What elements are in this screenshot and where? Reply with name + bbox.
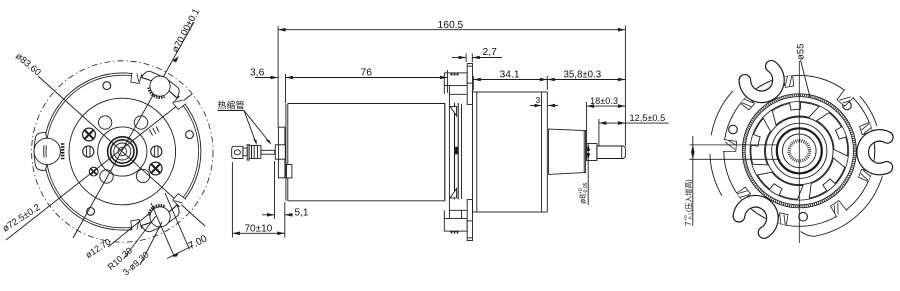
left view outer body inner circle [46,75,199,228]
dimension 160.5 [278,20,625,146]
dimension 2,7 [452,47,502,62]
plain hole upper-left [98,116,111,129]
hub circle [98,127,147,176]
can end crimp [444,104,446,200]
collar ø8 [587,144,597,161]
svg-text:18±0.3: 18±0.3 [590,96,618,106]
crimp triangle top [450,106,457,116]
spoke window 3 [769,94,820,136]
cross screw upper-left [83,128,96,141]
svg-text:ø8: ø8 [578,194,588,204]
svg-text:ø70.00±0.1: ø70.00±0.1 [170,7,202,55]
svg-text:5,1: 5,1 [295,208,309,219]
leader arrowhead on ø70 line [173,56,179,62]
left view phantom circle ø83.60 [32,61,213,242]
serrated ring [745,97,853,205]
wire grommet [287,165,292,178]
svg-text:7.00: 7.00 [187,233,210,252]
ear tab at +60 deg [127,191,192,241]
ring hole 87 deg [799,212,808,221]
rear step line [541,92,543,212]
svg-text:2,7: 2,7 [483,47,498,58]
cross screw lower-left small [89,167,98,176]
spoke window 5 [807,154,846,205]
dimension 18±0.3 [587,96,626,143]
dimension 34.1 [473,70,547,91]
spoke windows [739,90,860,211]
outer circle arcs through C cavities [873,145,876,159]
svg-text:12,5±0.5: 12,5±0.5 [630,113,666,123]
hub circle 3 [783,134,817,168]
small hole at 118 deg [87,208,95,216]
dimension 35,8±0.3 [547,70,625,82]
ring hole 162 deg [729,125,738,134]
svg-text:热缩管: 热缩管 [218,100,245,111]
svg-text:7: 7 [683,221,693,226]
rear cap tab bottom [444,200,472,241]
leader line A (ø83.60) [38,76,205,226]
ear tab at -60 deg [127,62,192,112]
crimp triangle bottom [450,188,457,198]
svg-text:34.1: 34.1 [500,70,520,81]
washer 1 [247,145,249,161]
svg-text:ø83.60: ø83.60 [13,51,43,78]
rear housing [473,92,548,212]
dimension 7 (press-in) [683,136,780,226]
III mark [150,126,160,135]
cone right face inner line [583,131,585,173]
svg-text:35,8±0.3: 35,8±0.3 [564,70,602,81]
hub outer circle [766,117,834,185]
plain hole upper-right [134,116,147,129]
slotted screw right [151,146,162,157]
crimp sleeve [252,146,261,159]
front shaft [261,150,275,154]
spoke window 2 [745,117,780,168]
bearing cone [549,129,586,174]
terminal neck [243,148,247,156]
svg-text:ø55: ø55 [796,44,807,60]
heat shrink sleeve [275,145,285,159]
small hole at -103 deg [103,82,111,90]
svg-text:70±10: 70±10 [245,224,273,235]
svg-text:ø72.5±0.2: ø72.5±0.2 [1,202,43,234]
small hole at -14 deg [186,131,194,139]
terminal hole [234,150,240,155]
dimension 3,6 [250,68,278,80]
bearing ring inner (dark) [111,140,134,163]
dimension 12,5±0.5 [599,113,669,146]
svg-text:3: 3 [536,95,541,105]
left view outer body circle [44,73,201,230]
ear tab at 180 deg (C-clamp) [34,133,63,171]
plain hole lower-right [136,169,149,182]
left view inner flange circle [69,98,176,205]
svg-text:160.5: 160.5 [438,20,464,31]
wing at 56 deg [830,200,847,217]
slotted screw left [83,146,94,157]
C cutout -114 deg [729,54,798,113]
washer 2 [249,146,251,159]
cross screw lower-right [149,162,162,175]
hub circle 2 [772,123,827,178]
leader for R10.30 [124,216,156,258]
right view vertical centerline [798,61,800,243]
rear cap tab top [444,64,472,105]
rear shaft [597,146,626,159]
C cutout 0 deg [856,122,893,182]
leader for 3-ø9.30 [140,222,162,265]
dimension 5,1 [262,161,309,219]
ø55 label [796,44,811,97]
C cutout 125 deg [724,183,793,245]
shaft center hole [118,147,127,156]
bearing ring outer (dark) [108,137,137,166]
svg-text:-0.1: -0.1 [687,212,692,220]
wing at -49 deg [836,89,854,107]
wing at 184 deg [723,139,737,152]
can left face [285,104,287,201]
spoke window 4 [809,110,857,156]
rear housing inner joint [476,92,478,212]
shaft circle [114,143,131,160]
inner rim circle [750,102,849,201]
right view outer circle [724,75,875,226]
dimension ø8 [578,144,591,206]
dimension 70±10 [232,162,284,238]
spoke window 1 [754,168,804,201]
hub heavy ring [777,128,822,173]
skirt bulge lower-right [801,176,883,236]
front boss ring [278,127,285,178]
skirt bulge left [710,154,722,196]
svg-text:(压入增高): (压入增高) [684,179,693,212]
ring hole -43 deg [843,101,852,110]
knurled bore [789,141,809,161]
plain hole lower-left [100,170,113,183]
svg-text:-0.05: -0.05 [583,182,589,194]
skirt bulge top-right [860,96,877,125]
dimension 76 [286,68,448,104]
cap inner vertical [461,104,463,199]
can outline [288,104,445,201]
leader line C (ø72.5) [6,94,192,240]
leader line B (ø70.00) [73,22,194,238]
热缩管 label [218,100,272,146]
brush plate verticals [454,103,456,200]
dimension 3 (rear step) [530,95,558,107]
svg-text:3,6: 3,6 [250,68,265,79]
svg-text:76: 76 [361,68,373,79]
terminal lug [232,146,243,158]
dimension 7.00 [151,193,209,259]
svg-text:ø12.70: ø12.70 [84,237,113,261]
leader for ø12.70 [108,213,150,247]
